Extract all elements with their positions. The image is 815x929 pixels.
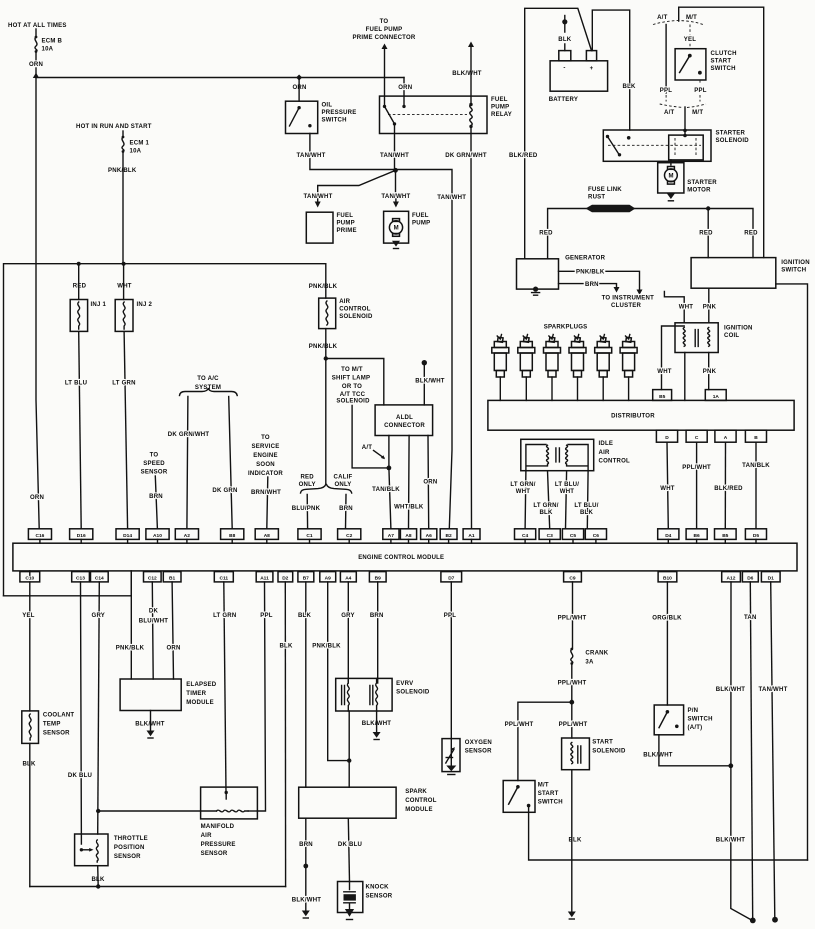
- svg-text:BLK: BLK: [558, 37, 572, 43]
- svg-text:C2: C2: [346, 533, 352, 539]
- wire BLK battery positive to starter solenoid: [592, 10, 629, 130]
- svg-text:START: START: [592, 740, 613, 746]
- svg-text:KNOCK: KNOCK: [366, 885, 390, 891]
- wire BLK TPS to ground rail: [97, 866, 100, 887]
- svg-text:TO: TO: [380, 19, 389, 25]
- wire WHT/BLK ALDL to pin A8: [408, 436, 411, 529]
- pin D14: [116, 529, 139, 543]
- svg-text:MANIFOLD: MANIFOLD: [201, 824, 235, 830]
- svg-text:M/T: M/T: [692, 110, 703, 116]
- svg-text:CONTROL: CONTROL: [405, 798, 437, 804]
- svg-text:HOT AT ALL TIMES: HOT AT ALL TIMES: [8, 23, 67, 29]
- junction dot A9-EVRV: [347, 758, 351, 762]
- svg-text:B: B: [754, 435, 758, 441]
- svg-text:B9: B9: [375, 576, 381, 582]
- svg-text:BRN: BRN: [149, 494, 163, 500]
- wire BLK/WHT with up arrow into relay coil: [468, 42, 474, 105]
- svg-text:BATTERY: BATTERY: [549, 97, 578, 103]
- svg-text:A2: A2: [184, 533, 190, 539]
- wire BRN B9 to EVRV: [377, 582, 379, 683]
- wire junction down to option braces: [325, 359, 327, 484]
- svg-text:COOLANT: COOLANT: [43, 713, 75, 719]
- svg-text:CONNECTOR: CONNECTOR: [384, 423, 425, 429]
- pin B7: [298, 572, 314, 582]
- svg-text:LT BLU: LT BLU: [65, 380, 87, 386]
- sparkplug 6: [620, 335, 637, 401]
- svg-text:C4: C4: [522, 533, 528, 539]
- wire GRY C14 to TPS: [98, 582, 100, 834]
- svg-text:TAN/WHT: TAN/WHT: [437, 195, 466, 201]
- svg-text:10A: 10A: [42, 47, 54, 53]
- svg-text:STARTER: STARTER: [687, 180, 717, 186]
- engine control module box: [13, 543, 797, 571]
- wire PNK/BLK A9 joins EVRV output: [328, 582, 350, 761]
- pin B5: [715, 529, 737, 543]
- oxygen sensor: [442, 739, 492, 772]
- svg-text:PPL/WHT: PPL/WHT: [505, 722, 534, 728]
- sparkplug 1: [492, 335, 509, 401]
- svg-text:ORG/BLK: ORG/BLK: [652, 616, 682, 622]
- pin A12: [722, 572, 741, 582]
- svg-text:PUMP: PUMP: [491, 105, 509, 111]
- svg-text:STARTER: STARTER: [716, 131, 746, 137]
- svg-text:DK: DK: [149, 609, 159, 615]
- svg-text:WHT: WHT: [660, 486, 675, 492]
- svg-text:BLK/WHT: BLK/WHT: [292, 898, 322, 904]
- wire ALDL pin to A/T junction: [388, 436, 390, 468]
- wire TAN/BLK to pin A7: [389, 468, 391, 529]
- pin D5: [745, 529, 766, 543]
- svg-text:BLK/WHT: BLK/WHT: [452, 71, 482, 77]
- svg-text:RED: RED: [73, 284, 87, 290]
- svg-text:A/T: A/T: [657, 15, 667, 21]
- svg-text:SWITCH: SWITCH: [538, 800, 563, 806]
- sparkplug 3: [544, 335, 561, 401]
- wire PPL to starter solenoid: [683, 107, 687, 135]
- sparkplug 5: [595, 335, 612, 401]
- air control solenoid: [319, 298, 373, 329]
- pin C9: [564, 572, 582, 582]
- wire BLK D2 to ground rail: [284, 582, 286, 887]
- pin B2: [440, 529, 457, 543]
- svg-text:BRN: BRN: [299, 842, 313, 848]
- wire WHT distributor D to ECM D4: [667, 442, 668, 529]
- wire LT GRN/WHT to pin C4: [524, 471, 527, 529]
- throttle position sensor: [75, 834, 148, 866]
- svg-text:CLUTCH: CLUTCH: [711, 51, 737, 57]
- wire PPL/WHT C9 down: [572, 582, 574, 648]
- ground starter motor: [667, 194, 675, 201]
- svg-text:A10: A10: [153, 533, 162, 539]
- wire LT GRN to pin D14: [124, 331, 128, 528]
- svg-text:MODULE: MODULE: [186, 700, 214, 706]
- pin box B5 (distributor top): [653, 390, 672, 401]
- svg-text:ENGINE CONTROL MODULE: ENGINE CONTROL MODULE: [358, 555, 444, 561]
- svg-text:EVRV: EVRV: [396, 681, 413, 687]
- svg-text:PNK/BLK: PNK/BLK: [309, 344, 338, 350]
- svg-text:TAN/WHT: TAN/WHT: [297, 153, 326, 159]
- arrow to fuel pump: [393, 199, 399, 208]
- wire PNK coil to pin box: [708, 353, 710, 390]
- injector INJ 2: [115, 264, 152, 332]
- wire shift lamp line to A/T junction: [352, 406, 389, 468]
- svg-text:TIMER: TIMER: [186, 691, 206, 697]
- ground rail bottom left: [30, 886, 286, 888]
- svg-text:WHT: WHT: [117, 284, 132, 290]
- svg-text:YEL: YEL: [684, 37, 697, 43]
- svg-text:ORN: ORN: [30, 495, 44, 501]
- wire PPL/WHT below fuse: [571, 664, 573, 703]
- wire M/T branch dashed to clutch switch: [689, 25, 691, 49]
- svg-text:INJ 2: INJ 2: [137, 302, 153, 308]
- svg-text:TO: TO: [150, 453, 159, 459]
- svg-text:AIR: AIR: [599, 450, 610, 456]
- svg-text:M: M: [668, 173, 673, 179]
- svg-text:C: C: [695, 435, 699, 441]
- svg-text:BLK/RED: BLK/RED: [714, 486, 743, 492]
- pin box C: [686, 430, 707, 442]
- svg-text:B5: B5: [659, 394, 665, 400]
- wire A/T branch: [665, 25, 667, 94]
- svg-text:BLK: BLK: [623, 84, 637, 90]
- svg-text:M/T: M/T: [686, 15, 697, 21]
- wire RED to ignition switch: [707, 209, 709, 258]
- pin D7: [441, 572, 462, 582]
- svg-text:SHIFT LAMP: SHIFT LAMP: [332, 376, 370, 382]
- svg-text:START: START: [538, 791, 559, 797]
- wire TAN/WHT from oil pressure switch: [310, 134, 395, 170]
- wire coil secondary to distributor: [684, 353, 686, 401]
- svg-text:MODULE: MODULE: [405, 807, 433, 813]
- clutch start switch: [675, 49, 737, 80]
- svg-text:ONLY: ONLY: [334, 482, 351, 488]
- svg-text:TAN/BLK: TAN/BLK: [742, 463, 770, 469]
- wire BRN to pin C2: [345, 495, 348, 529]
- svg-text:C5: C5: [570, 533, 576, 539]
- wire RED rail with fuse link: [548, 209, 753, 259]
- wire PPL/WHT distributor C to ECM B6: [696, 442, 698, 529]
- svg-text:TO: TO: [261, 435, 270, 441]
- svg-text:A7: A7: [388, 533, 394, 539]
- svg-text:M: M: [394, 226, 399, 232]
- svg-text:DK BLU: DK BLU: [338, 842, 362, 848]
- wire DK BLU/WHT C12 to timer: [151, 582, 154, 679]
- svg-text:SWITCH: SWITCH: [711, 66, 736, 72]
- svg-text:C13: C13: [76, 576, 85, 582]
- fuel pump relay box: [380, 96, 488, 133]
- junction dot TAN/WHT: [393, 168, 398, 173]
- ignition coil: [675, 323, 753, 353]
- wire ORG/BLK B10 to P/N switch: [666, 582, 668, 705]
- svg-text:PPL/WHT: PPL/WHT: [558, 616, 587, 622]
- knock sensor: [338, 882, 393, 913]
- svg-text:B1: B1: [169, 576, 175, 582]
- svg-text:DK BLU: DK BLU: [68, 773, 92, 779]
- pin C6: [585, 529, 606, 543]
- oil pressure switch: [286, 101, 357, 133]
- wire BLK/WHT to ALDL: [423, 365, 425, 405]
- wire PNK/BLK ECM feed to elapsed timer: [130, 571, 132, 679]
- battery: [549, 51, 608, 103]
- wire LT GRN/BLK to pin C3: [548, 471, 550, 529]
- svg-text:D14: D14: [123, 533, 132, 539]
- pin C2: [338, 529, 361, 543]
- svg-text:RED: RED: [300, 474, 314, 480]
- svg-text:SOLENOID: SOLENOID: [336, 399, 370, 405]
- svg-text:D2: D2: [282, 576, 288, 582]
- dot BLK/WHT connector: [422, 360, 427, 365]
- wire GRY A4 to EVRV: [347, 582, 349, 683]
- svg-text:SENSOR: SENSOR: [141, 470, 168, 476]
- pin C4: [515, 529, 536, 543]
- pin B6: [686, 529, 707, 543]
- svg-text:PPL/WHT: PPL/WHT: [559, 722, 588, 728]
- junction dot RED: [706, 206, 710, 210]
- svg-text:D7: D7: [448, 576, 454, 582]
- svg-text:B2: B2: [445, 533, 451, 539]
- svg-text:BLK: BLK: [298, 613, 312, 619]
- svg-text:GENERATOR: GENERATOR: [565, 256, 605, 262]
- pin C13: [72, 572, 90, 582]
- pin A10: [146, 529, 169, 543]
- ground start solenoid: [568, 770, 576, 919]
- svg-text:BRN: BRN: [339, 506, 353, 512]
- arrow to fuel pump prime: [315, 199, 321, 208]
- svg-text:FUEL: FUEL: [412, 213, 429, 219]
- relay coil: [469, 103, 472, 128]
- svg-text:D5: D5: [753, 533, 759, 539]
- svg-text:BRN: BRN: [585, 282, 599, 288]
- svg-text:C6: C6: [593, 533, 599, 539]
- svg-text:+: +: [590, 66, 594, 72]
- svg-text:C10: C10: [25, 576, 34, 582]
- wire air solenoid to junction: [325, 329, 327, 359]
- pin D2: [278, 572, 293, 582]
- wire DK BLU to knock sensor: [348, 818, 349, 881]
- pin box D (distributor bottom): [656, 430, 677, 442]
- svg-text:A8: A8: [405, 533, 411, 539]
- svg-text:INJ 1: INJ 1: [91, 302, 107, 308]
- svg-text:SOON: SOON: [256, 462, 275, 468]
- svg-text:10A: 10A: [130, 149, 142, 155]
- svg-text:RED: RED: [539, 231, 553, 237]
- generator BRN stub: [559, 282, 620, 293]
- svg-text:A/T: A/T: [362, 445, 372, 451]
- wire diagonal to fuel pump prime: [318, 170, 396, 191]
- svg-text:LT BLU/: LT BLU/: [555, 482, 579, 488]
- pin A8: [255, 529, 278, 543]
- wire BLK coolant sensor to ground rail: [29, 743, 31, 886]
- svg-text:YEL: YEL: [22, 613, 35, 619]
- fuse link thick bar: [586, 205, 636, 213]
- svg-text:A9: A9: [325, 576, 331, 582]
- svg-text:C14: C14: [95, 576, 104, 582]
- pin C10: [20, 571, 40, 582]
- distributor box: [488, 400, 794, 430]
- svg-text:TAN/WHT: TAN/WHT: [759, 687, 788, 693]
- fuel pump prime box: [306, 212, 333, 243]
- start solenoid: [562, 738, 626, 770]
- svg-text:B10: B10: [663, 576, 672, 582]
- wire TAN/WHT right branch long to pin B2: [396, 170, 453, 529]
- svg-text:B6: B6: [693, 533, 699, 539]
- wire PPL/WHT branch to M/T start switch: [518, 702, 572, 780]
- relay ORN contact dot: [402, 105, 405, 108]
- svg-text:C1: C1: [306, 533, 312, 539]
- svg-text:PPL: PPL: [694, 88, 707, 94]
- svg-text:FUSE LINK: FUSE LINK: [588, 187, 622, 193]
- wire LT BLU/WHT to pin C5: [566, 471, 567, 529]
- splice dot A12-D6: [750, 918, 756, 924]
- svg-text:A: A: [724, 435, 728, 441]
- svg-text:B7: B7: [303, 576, 309, 582]
- svg-text:PRIME CONNECTOR: PRIME CONNECTOR: [353, 35, 416, 41]
- svg-text:DISTRIBUTOR: DISTRIBUTOR: [611, 414, 655, 420]
- junction dot BLK/WHT: [728, 763, 733, 768]
- fuel pump motor: [384, 211, 409, 243]
- svg-text:SENSOR: SENSOR: [465, 749, 492, 755]
- pin A4: [340, 572, 356, 582]
- svg-text:-: -: [563, 66, 565, 72]
- pin C1: [298, 529, 321, 543]
- svg-text:WHT: WHT: [560, 489, 575, 495]
- pin A8b: [400, 529, 416, 543]
- pin box B: [745, 430, 766, 442]
- svg-text:PPL/WHT: PPL/WHT: [682, 465, 711, 471]
- label A/T with arrow: [362, 445, 385, 459]
- pin D1: [761, 572, 780, 582]
- svg-text:PNK: PNK: [703, 305, 717, 311]
- svg-text:THROTTLE: THROTTLE: [114, 836, 148, 842]
- svg-text:DK GRN/WHT: DK GRN/WHT: [445, 153, 487, 159]
- svg-text:3A: 3A: [585, 660, 594, 666]
- svg-text:COIL: COIL: [724, 333, 739, 339]
- svg-text:LT GRN/: LT GRN/: [533, 503, 558, 509]
- svg-text:C9: C9: [569, 576, 575, 582]
- svg-text:TO M/T: TO M/T: [341, 367, 363, 373]
- svg-text:FUEL: FUEL: [491, 97, 508, 103]
- svg-text:BLU/WHT: BLU/WHT: [139, 619, 169, 625]
- svg-text:A1: A1: [468, 533, 474, 539]
- pin A9: [320, 572, 336, 582]
- wire BLK/RED distributor A to ECM B5: [724, 442, 726, 529]
- svg-text:BRN/WHT: BRN/WHT: [251, 490, 281, 496]
- svg-text:BLK: BLK: [568, 837, 582, 843]
- pin C16: [28, 529, 51, 543]
- svg-text:FUEL PUMP: FUEL PUMP: [366, 27, 403, 33]
- bracket A/T M/T split: [653, 21, 703, 25]
- pin A7: [383, 529, 399, 543]
- wire DK GRN/WHT to pin A2: [187, 397, 188, 529]
- junction dot TPS ground: [96, 884, 100, 888]
- bracket PPL merge: [660, 104, 706, 108]
- pin B10: [658, 572, 677, 582]
- svg-text:WHT: WHT: [657, 369, 672, 375]
- svg-text:A4: A4: [345, 576, 351, 582]
- svg-text:D16: D16: [77, 533, 86, 539]
- wire ignition switch right to page edge: [776, 284, 808, 860]
- svg-text:CALIF: CALIF: [334, 474, 353, 480]
- relay switch: [383, 105, 396, 126]
- svg-text:WHT: WHT: [516, 489, 531, 495]
- svg-text:BLK: BLK: [279, 643, 293, 649]
- wire injector supply rail: [4, 264, 326, 596]
- svg-text:ECM 1: ECM 1: [130, 141, 150, 147]
- svg-text:SENSOR: SENSOR: [43, 731, 70, 737]
- svg-text:C12: C12: [148, 576, 157, 582]
- pin D4: [658, 529, 679, 543]
- svg-text:PUMP: PUMP: [412, 221, 430, 227]
- svg-text:IDLE: IDLE: [599, 441, 614, 447]
- wire BRN to pin A10: [155, 476, 157, 529]
- pin C11: [214, 572, 233, 582]
- svg-text:SENSOR: SENSOR: [201, 851, 228, 857]
- starter solenoid dashed link: [608, 144, 701, 146]
- svg-text:C16: C16: [35, 533, 44, 539]
- relay dashed link: [388, 114, 467, 116]
- svg-text:TAN/BLK: TAN/BLK: [372, 487, 400, 493]
- pin box 1A (distributor top): [705, 390, 726, 401]
- svg-text:B8: B8: [229, 533, 235, 539]
- sparkplug 4: [569, 335, 586, 401]
- svg-text:SENSOR: SENSOR: [114, 854, 141, 860]
- starter solenoid switch: [606, 135, 631, 157]
- svg-text:OR TO: OR TO: [342, 384, 362, 390]
- svg-text:HOT IN RUN AND START: HOT IN RUN AND START: [76, 124, 152, 130]
- svg-text:LT GRN: LT GRN: [112, 380, 135, 386]
- svg-text:SPEED: SPEED: [143, 461, 165, 467]
- wire BLK/WHT P/N to A12 line: [659, 735, 731, 766]
- pin A2: [175, 529, 198, 543]
- wire PPL A11 to MAP right: [257, 582, 265, 811]
- svg-text:GRY: GRY: [341, 613, 355, 619]
- svg-text:LT GRN: LT GRN: [213, 613, 236, 619]
- wire rail stub to ECM bottom: [4, 571, 132, 596]
- wire BRN spark module ground: [305, 818, 307, 910]
- svg-text:M/T: M/T: [538, 783, 549, 789]
- idle air control box: [521, 439, 630, 470]
- svg-text:BLU/PNK: BLU/PNK: [292, 506, 321, 512]
- pin B8: [221, 529, 244, 543]
- svg-text:PRESSURE: PRESSURE: [201, 842, 236, 848]
- wire TAN/BLK distributor B to ECM D5: [755, 442, 757, 529]
- starter solenoid box: [603, 130, 711, 161]
- svg-text:BLK: BLK: [580, 510, 594, 516]
- svg-text:SOLENOID: SOLENOID: [716, 138, 750, 144]
- wire DK GRN to pin B8: [229, 397, 233, 529]
- wire PNK/BLK rail corner to air control solenoid: [325, 264, 327, 298]
- svg-text:IGNITION: IGNITION: [724, 326, 753, 332]
- svg-text:D6: D6: [747, 576, 753, 582]
- wire PNK ignition switch to coil: [708, 288, 710, 323]
- svg-text:ORN: ORN: [166, 645, 180, 651]
- pin D6: [742, 572, 758, 582]
- svg-text:PNK: PNK: [703, 369, 717, 375]
- svg-text:P/N: P/N: [688, 708, 699, 714]
- svg-text:A8: A8: [264, 533, 270, 539]
- fuse ECM 1 10A: [122, 131, 150, 155]
- splice dot D1: [772, 917, 778, 923]
- ground elapsed timer: [147, 711, 155, 739]
- wire TAN/WHT D1 down: [771, 582, 775, 919]
- EVRV solenoid: [336, 678, 430, 711]
- svg-text:CRANK: CRANK: [585, 651, 608, 657]
- wire ORN ALDL to pin A6: [427, 436, 430, 529]
- svg-text:ONLY: ONLY: [299, 482, 316, 488]
- ignition switch box: [691, 258, 810, 289]
- svg-text:PNK/BLK: PNK/BLK: [116, 645, 145, 651]
- svg-text:DK GRN/WHT: DK GRN/WHT: [168, 432, 210, 438]
